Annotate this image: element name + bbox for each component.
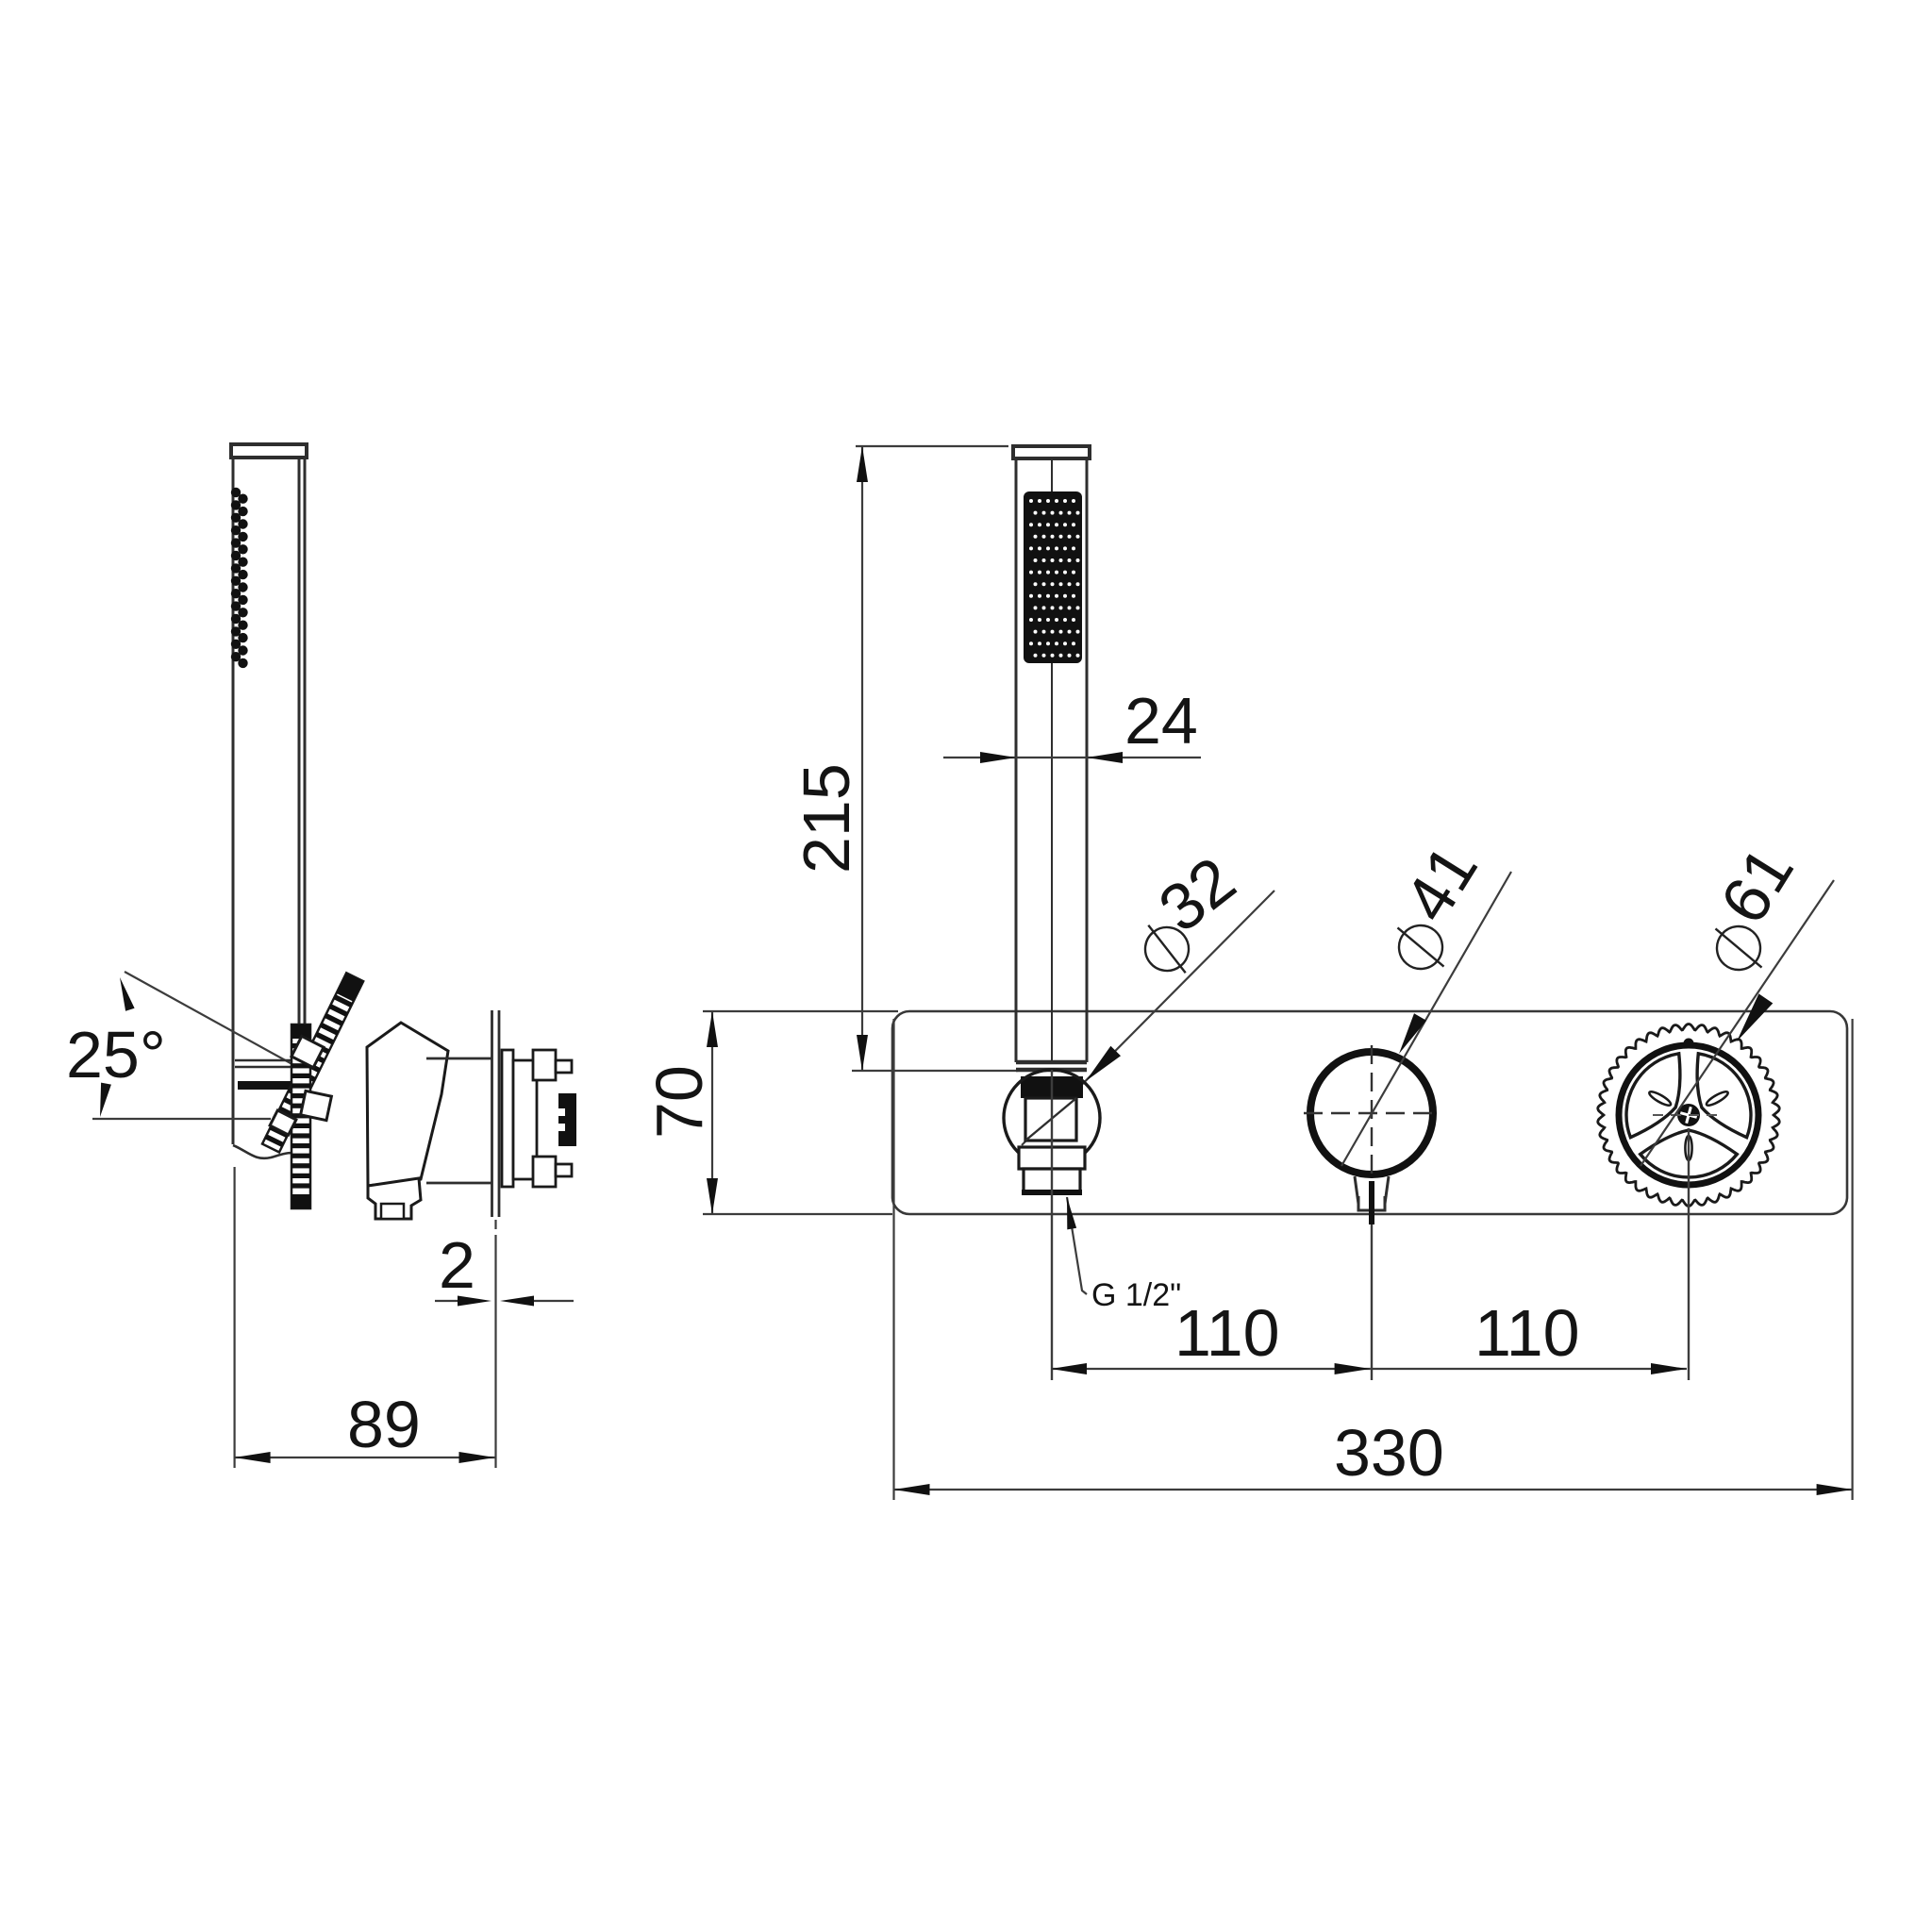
spray nozzles (side view) xyxy=(231,488,248,668)
svg-text:G 1/2": G 1/2" xyxy=(1091,1277,1181,1313)
dimension 89 xyxy=(235,1167,495,1468)
dimension 330 xyxy=(894,1019,1853,1500)
svg-text:70: 70 xyxy=(642,1065,716,1139)
concealed valve flange (behind wall) xyxy=(502,1050,513,1187)
hand wheel windows xyxy=(1626,1054,1751,1177)
dimension 110 right xyxy=(1371,1368,1687,1370)
leader line dia 41 xyxy=(1341,872,1511,1166)
control wheel rim (side view, knurled strip) xyxy=(291,1024,310,1208)
svg-text:110: 110 xyxy=(1174,1296,1280,1370)
wall plate (front view) xyxy=(892,1011,1847,1214)
dimension 24 xyxy=(943,757,1201,758)
shower holder outlet connector xyxy=(1019,1147,1085,1193)
dimension 25 deg xyxy=(92,972,308,1119)
svg-text:110: 110 xyxy=(1474,1296,1580,1370)
mixer lever (side view) xyxy=(262,973,363,1152)
control knob dia 41 (front view) xyxy=(1310,1052,1433,1174)
label dia 61 xyxy=(1702,912,1776,984)
center line through holder xyxy=(1051,1070,1053,1380)
hand wheel rim xyxy=(1619,1045,1758,1185)
knob stem xyxy=(1355,1176,1389,1210)
svg-text:25°: 25° xyxy=(66,1018,166,1091)
shower holder ring (front view) xyxy=(1021,1076,1083,1098)
label dia 41 xyxy=(1384,911,1458,983)
svg-text:24: 24 xyxy=(1124,684,1198,758)
spray face dots (front view) xyxy=(1024,491,1082,663)
dimension 110 left xyxy=(1051,1368,1371,1370)
leader line dia 32 xyxy=(1022,891,1274,1145)
svg-text:89: 89 xyxy=(347,1388,421,1461)
leader line dia 61 xyxy=(1641,880,1834,1166)
leader G 1/2 inch xyxy=(1067,1197,1087,1294)
dimension 2 (plate thickness) xyxy=(435,1220,574,1468)
hand shower wand (front view) xyxy=(1013,446,1090,1070)
hand wheel dia 61 gear ring xyxy=(1598,1024,1779,1207)
svg-text:2: 2 xyxy=(439,1228,475,1302)
escutcheon sleeve (side view) xyxy=(426,1058,491,1183)
hose connector (black) xyxy=(558,1093,576,1146)
wall plate (side view) xyxy=(492,1010,500,1217)
hand wheel index dot xyxy=(1684,1039,1694,1049)
center line hand wheel xyxy=(1688,1128,1690,1380)
label dia 32 xyxy=(1131,912,1203,987)
hand wheel hub screw xyxy=(1677,1104,1700,1126)
mounting bolt bottom xyxy=(533,1157,572,1187)
lever joint blocks xyxy=(270,1036,331,1135)
shower holder arm (side view) xyxy=(235,1060,296,1067)
mounting bolt top xyxy=(533,1050,572,1080)
dimension 215 xyxy=(852,446,1018,1071)
valve body (side view) xyxy=(367,1023,448,1186)
hose break line xyxy=(233,1145,299,1158)
svg-text:215: 215 xyxy=(790,763,863,874)
svg-text:330: 330 xyxy=(1334,1416,1444,1490)
dimension 70 xyxy=(703,1011,898,1214)
hand wheel petals xyxy=(1705,1090,1729,1108)
hand shower wand (side view) xyxy=(231,444,307,1154)
